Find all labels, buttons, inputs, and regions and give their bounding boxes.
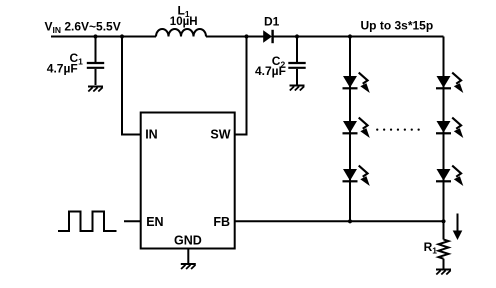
svg-text:VIN 2.6V~5.5V: VIN 2.6V~5.5V (45, 19, 121, 35)
current arrow at R1 (453, 214, 463, 241)
wire: D1 to right LED string corner (273, 36, 444, 38)
node: FB junction LED string1 bottom (348, 219, 352, 223)
wire: right LED string vertical (443, 37, 445, 222)
svg-text:FB: FB (213, 215, 230, 229)
svg-text:10µH: 10µH (170, 16, 198, 28)
svg-text:D1: D1 (264, 14, 280, 28)
inductor L1 (156, 29, 206, 37)
capacitor C1 (87, 37, 104, 86)
capacitor C2 (288, 37, 305, 85)
node: rail junction C1 (93, 34, 97, 38)
node: rail junction IN riser (120, 34, 124, 38)
dotted line between LED strings (377, 129, 425, 131)
LED string2 diode 1 (436, 73, 463, 93)
wire: riser from rail to SW pin (235, 37, 247, 135)
wire: L1 to D1 (206, 36, 264, 38)
LED string1 diode 3 (343, 166, 370, 186)
resistor R1 (439, 221, 449, 268)
wire: left LED string vertical (349, 37, 351, 222)
ground (IC GND) (181, 264, 196, 269)
node: rail junction SW riser (244, 34, 248, 38)
svg-text:IN: IN (145, 127, 158, 141)
square wave EN input signal (58, 212, 117, 232)
op-amp U1 box (141, 113, 235, 249)
svg-text:SW: SW (210, 127, 230, 141)
node: FB junction R1 top (441, 219, 445, 223)
ground (C1) (88, 87, 103, 92)
ground (C2) (290, 86, 305, 91)
node: rail junction C2 (295, 34, 299, 38)
ground (R1) (436, 270, 451, 275)
svg-text:4.7µF: 4.7µF (255, 64, 286, 78)
LED string2 diode 2 (436, 118, 463, 138)
wire: FB rail to LED strings and R1 (235, 220, 444, 222)
LED string2 diode 3 (436, 166, 463, 186)
LED string1 diode 1 (343, 73, 370, 93)
wire: input rail from VIN to L1 (51, 36, 156, 38)
wire: GND pin stem (187, 249, 189, 264)
svg-text:GND: GND (174, 233, 202, 247)
diode D1 (263, 30, 272, 43)
svg-text:EN: EN (146, 215, 163, 229)
node: rail junction LED string1 top (348, 34, 352, 38)
wire: EN pin stub (124, 220, 141, 222)
LED string1 diode 2 (343, 118, 370, 138)
wire: riser from rail to IN pin (122, 37, 141, 135)
svg-text:Up to 3s*15p: Up to 3s*15p (361, 18, 434, 32)
svg-text:4.7µF: 4.7µF (47, 62, 78, 76)
svg-text:R1: R1 (424, 240, 438, 256)
